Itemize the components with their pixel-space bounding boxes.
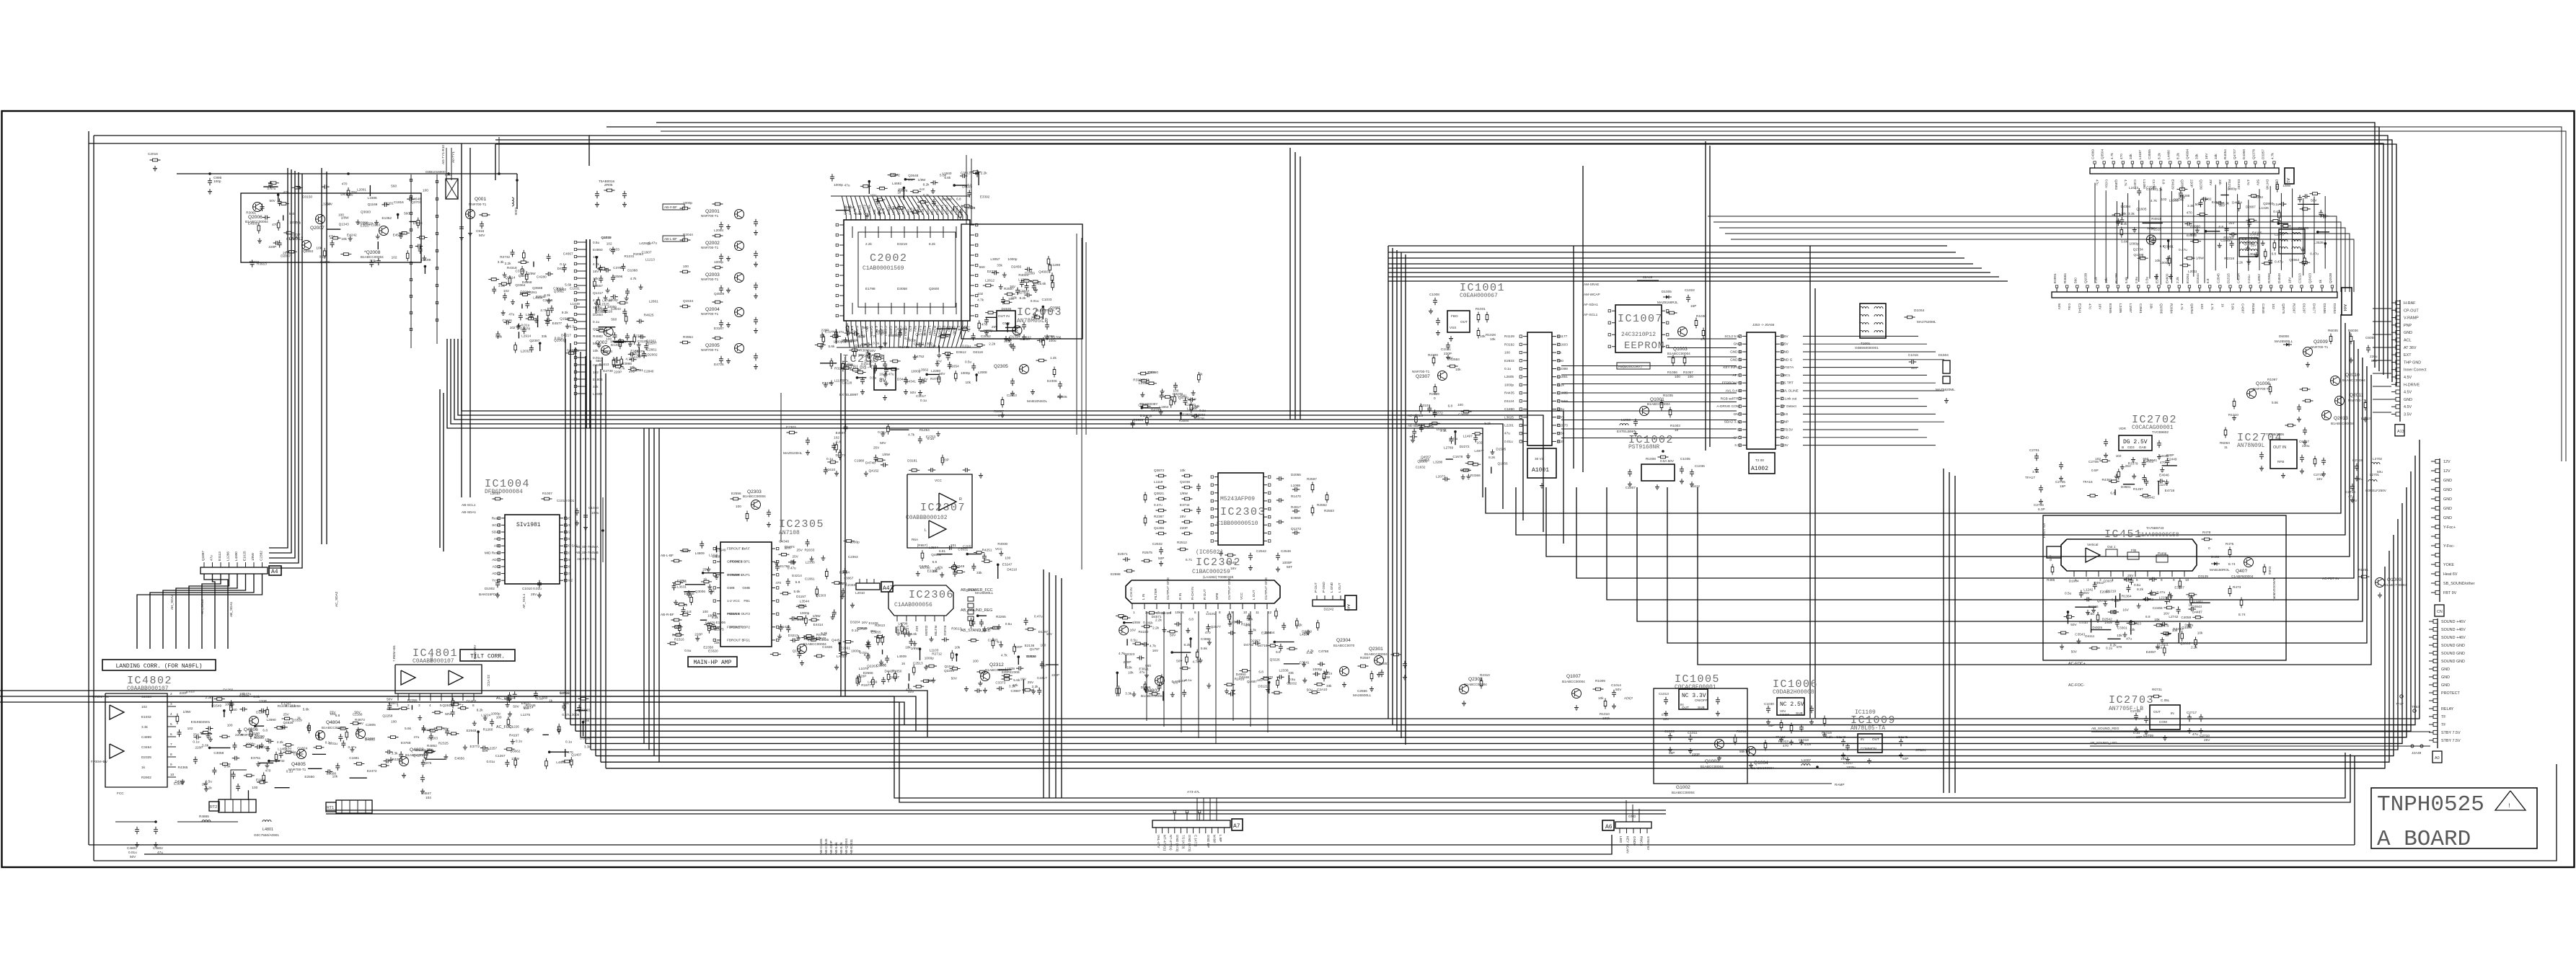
ground [883, 372, 888, 377]
ground [204, 786, 208, 792]
capacitor [2142, 474, 2146, 482]
svg-text:AT 36V: AT 36V [2404, 346, 2417, 350]
pin [845, 321, 847, 325]
svg-text:47u: 47u [210, 555, 213, 561]
svg-text:T5AB0016: T5AB0016 [599, 179, 615, 183]
svg-text:47u: 47u [938, 566, 943, 569]
ground [2165, 479, 2169, 484]
svg-text:1000p: 1000p [984, 329, 993, 332]
svg-text:C0AABB000107: C0AABB000107 [127, 686, 169, 692]
op-amp U4801a [401, 670, 415, 685]
svg-text:Q3873: Q3873 [863, 205, 866, 215]
svg-text:AD5: AD5 [564, 558, 571, 562]
pin [1552, 376, 1556, 378]
svg-text:C.05L: C.05L [2161, 699, 2170, 702]
svg-text:RFB: RFB [2277, 460, 2284, 464]
svg-text:R473: R473 [2233, 585, 2241, 589]
svg-text:C3561: C3561 [2139, 303, 2143, 314]
resistor [2190, 240, 2201, 243]
ground [399, 234, 403, 239]
svg-text:T1001: T1001 [1861, 342, 1871, 345]
svg-text:R1982: R1982 [2202, 197, 2212, 200]
svg-text:25V: 25V [2251, 243, 2257, 247]
svg-text:E.74: E.74 [2228, 562, 2236, 566]
capacitor [610, 295, 617, 299]
svg-text:E2074: E2074 [1261, 631, 1271, 635]
svg-text:1k: 1k [202, 783, 206, 786]
svg-text:L2032: L2032 [521, 350, 530, 353]
wire [2143, 222, 2163, 223]
svg-text:R2567: R2567 [1360, 656, 1370, 660]
capacitor [236, 784, 240, 791]
svg-text:D3132: D3132 [1437, 427, 1447, 431]
capacitor [534, 691, 538, 698]
pin [2435, 581, 2440, 585]
ground [1466, 453, 1470, 458]
svg-text:16P: 16P [2136, 735, 2142, 739]
pin [2280, 288, 2282, 292]
svg-text:470: 470 [1245, 624, 1250, 627]
svg-text:10k: 10k [1128, 670, 1134, 674]
resistor [521, 266, 524, 277]
svg-text:Q3504: Q3504 [2101, 149, 2104, 159]
svg-text:OUT: OUT [1460, 320, 1468, 324]
svg-text:0.1u: 0.1u [1185, 678, 1192, 682]
svg-text:220P: 220P [1124, 660, 1132, 664]
resistor [841, 367, 852, 370]
svg-text:C2708: C2708 [2088, 460, 2099, 464]
pin [262, 562, 263, 567]
svg-text:C2705: C2705 [2055, 480, 2065, 484]
pin [860, 216, 862, 220]
verticals center page [840, 353, 842, 696]
svg-text:R1019: R1019 [1822, 731, 1832, 735]
resistor [2280, 225, 2291, 228]
vertical risers IC2002 to bus [565, 339, 566, 719]
svg-text:R2190: R2190 [795, 618, 806, 621]
pin [577, 241, 586, 243]
inductor [1860, 331, 1869, 332]
resistor [713, 234, 723, 237]
capacitor [451, 709, 455, 717]
svg-text:Q4789: Q4789 [1178, 396, 1188, 399]
wire [269, 761, 280, 762]
capacitor [177, 730, 182, 737]
resistor [1146, 415, 1149, 426]
resistor [230, 703, 233, 714]
svg-text:560: 560 [542, 696, 547, 700]
wire [275, 787, 290, 789]
svg-text:EXTELB99T: EXTELB99T [1617, 430, 1636, 433]
svg-text:POWER BP2: POWER BP2 [730, 625, 750, 629]
resistor [943, 353, 953, 355]
svg-text:R OUT: R OUT [1203, 589, 1207, 600]
svg-text:C1147: C1147 [1843, 761, 1853, 765]
ground [1002, 272, 1007, 278]
label box TILT CORR. [460, 649, 515, 661]
svg-text:D1314: D1314 [1010, 335, 1020, 339]
svg-text:L1119: L1119 [1154, 480, 1163, 484]
resistor [338, 727, 348, 730]
capacitor [2120, 217, 2124, 224]
inductor [2240, 242, 2249, 244]
svg-text:C2532: C2532 [1152, 542, 1163, 546]
svg-text:SDA2 3.3V: SDA2 3.3V [1724, 420, 1742, 424]
svg-text:0.5u: 0.5u [870, 376, 877, 379]
pin [1776, 445, 1780, 446]
svg-text:VDR: VDR [2119, 427, 2127, 430]
svg-text:47u: 47u [414, 735, 420, 739]
svg-text:4.5V: 4.5V [2404, 391, 2412, 395]
svg-text:D2887: D2887 [2246, 205, 2256, 208]
ground [1058, 394, 1062, 399]
svg-text:R2387: R2387 [1154, 515, 1164, 518]
wire [978, 172, 979, 185]
svg-text:TRA00039Y: TRA00039Y [1139, 402, 1158, 406]
svg-text:C1679: C1679 [705, 621, 715, 625]
svg-text:C2002: C2002 [870, 252, 908, 265]
pin [2066, 288, 2068, 292]
svg-text:1/8W: 1/8W [911, 647, 919, 650]
pin [2435, 525, 2440, 528]
svg-text:B1ABCC00004: B1ABCC00004 [743, 495, 766, 498]
pin [2433, 619, 2438, 623]
svg-text:Q3479: Q3479 [926, 205, 930, 215]
svg-text:L1426: L1426 [2259, 206, 2269, 210]
svg-text:C3740: C3740 [516, 270, 526, 273]
svg-text:4.7k: 4.7k [2270, 152, 2274, 159]
svg-text:D10S4: D10S4 [1914, 309, 1925, 312]
wire [2220, 195, 2228, 196]
capacitor [960, 174, 967, 178]
pin [577, 342, 586, 344]
ground [389, 757, 393, 762]
capacitor [583, 513, 588, 520]
pin [2270, 288, 2272, 292]
pin [253, 562, 255, 567]
svg-text:25V: 25V [793, 554, 799, 558]
ground [754, 328, 758, 333]
svg-text:L4977: L4977 [1474, 449, 1483, 453]
svg-text:0.5P: 0.5P [2091, 469, 2099, 472]
svg-text:STBY 5V: STBY 5V [1646, 836, 1650, 851]
capacitor [621, 263, 625, 270]
svg-text:0.5u: 0.5u [2135, 276, 2138, 283]
svg-text:E3187: E3187 [361, 223, 371, 227]
svg-text:470: 470 [2187, 595, 2193, 598]
svg-text:L3621: L3621 [2248, 252, 2257, 256]
resistor [480, 213, 490, 216]
ground [2259, 466, 2264, 471]
svg-text:L1275: L1275 [521, 713, 530, 717]
ground [1449, 336, 1453, 341]
inner rect bottom [89, 844, 2355, 846]
svg-text:0.1u: 0.1u [193, 740, 200, 743]
svg-text:GND: GND [1734, 435, 1742, 439]
svg-text:Q1905: Q1905 [1460, 468, 1470, 471]
svg-text:0.1u: 0.1u [516, 740, 523, 743]
svg-text:5.6k: 5.6k [405, 727, 412, 730]
wire [820, 363, 837, 364]
svg-text:C-Link out: C-Link out [1781, 396, 1797, 400]
resistor [1434, 384, 1437, 395]
svg-text:1000p: 1000p [961, 371, 970, 375]
IC2702 passives [2087, 453, 2177, 499]
svg-text:16V: 16V [1152, 649, 1159, 652]
capacitor [904, 377, 908, 384]
capacitor [2350, 484, 2355, 491]
svg-text:L2094: L2094 [714, 229, 723, 232]
svg-text:D3612: D3612 [956, 350, 966, 354]
svg-text:C4103: C4103 [428, 736, 438, 740]
svg-text:4.7k: 4.7k [977, 298, 984, 302]
resistor [277, 220, 280, 231]
wire [327, 229, 340, 230]
pin [2396, 309, 2400, 312]
reset IC box [1447, 311, 1470, 332]
svg-text:16V: 16V [880, 662, 886, 666]
svg-text:C1980: C1980 [854, 458, 864, 462]
svg-text:470: 470 [2160, 461, 2166, 464]
svg-text:IN: IN [1861, 737, 1864, 741]
capacitor [830, 174, 834, 181]
svg-text:AF-SCL1: AF-SCL1 [1584, 313, 1598, 316]
svg-text:470: 470 [1205, 631, 1211, 634]
svg-text:1: 1 [1133, 611, 1135, 614]
svg-text:6.8: 6.8 [1258, 670, 1263, 674]
resistor [888, 174, 899, 177]
wire [1491, 467, 1492, 474]
svg-text:0.1u: 0.1u [826, 457, 834, 461]
svg-text:D2456: D2456 [1011, 265, 1021, 268]
resistor [1472, 433, 1483, 435]
wire [377, 241, 379, 249]
svg-text:560: 560 [611, 318, 617, 322]
ground [2306, 362, 2310, 367]
svg-text:Q1887: Q1887 [945, 205, 949, 215]
svg-text:D451: D451 [2268, 567, 2272, 575]
svg-text:D3204: D3204 [850, 621, 860, 624]
svg-text:C3058: C3058 [213, 751, 224, 755]
wires Q2009 cluster to mini stack [2373, 308, 2391, 309]
svg-text:B1ABCC00004: B1ABCC00004 [361, 255, 384, 259]
svg-text:5.6k: 5.6k [1246, 617, 1253, 621]
capacitor [511, 249, 515, 257]
pin [203, 562, 205, 567]
svg-text:L4648: L4648 [412, 198, 421, 201]
pin [970, 234, 974, 236]
pin [918, 216, 919, 220]
resistor [830, 335, 841, 338]
svg-text:R1488: R1488 [899, 345, 909, 349]
resistor [625, 314, 627, 324]
svg-text:R2587: R2587 [1004, 287, 1014, 291]
ground [537, 593, 542, 598]
svg-text:E4873: E4873 [935, 205, 939, 215]
svg-text:F/B: F/B [2131, 549, 2136, 552]
svg-text:R4391: R4391 [2102, 478, 2112, 482]
resistor [1672, 355, 1675, 366]
IC2002 interior [858, 232, 956, 307]
pin [894, 216, 896, 220]
svg-text:C2052: C2052 [981, 334, 991, 338]
pin [2435, 590, 2440, 594]
svg-text:TA75B9743: TA75B9743 [2146, 526, 2164, 530]
svg-text:L3539: L3539 [2314, 241, 2324, 244]
svg-text:3.3k: 3.3k [1250, 628, 1257, 631]
svg-text:E2136: E2136 [1025, 644, 1035, 647]
svg-text:L2201: L2201 [1504, 423, 1514, 427]
svg-text:R1470: R1470 [1291, 495, 1301, 498]
ground [878, 344, 883, 349]
svg-text:SDA1: SDA1 [492, 531, 501, 534]
wire [601, 358, 603, 371]
resistor [1162, 396, 1173, 399]
resistor [954, 371, 957, 381]
capacitor [522, 327, 526, 334]
svg-text:Q2307: Q2307 [1416, 374, 1430, 379]
inductor [1874, 315, 1883, 316]
svg-text:Q1407: Q1407 [571, 753, 581, 756]
resistor [545, 758, 548, 769]
svg-text:C1040: C1040 [588, 506, 599, 510]
svg-text:IC2703: IC2703 [2109, 694, 2154, 706]
pin [577, 249, 586, 250]
transistor [604, 327, 613, 337]
svg-text:AD0: AD0 [564, 551, 571, 554]
page border frame [2, 111, 2575, 867]
svg-text:Q2807: Q2807 [889, 675, 899, 679]
svg-text:L3867: L3867 [844, 576, 853, 580]
svg-text:Q2304: Q2304 [1336, 638, 1351, 643]
inductor [1860, 315, 1869, 316]
svg-text:1000p: 1000p [2130, 242, 2139, 246]
svg-text:Q1887: Q1887 [201, 551, 205, 561]
svg-text:8.2k: 8.2k [2176, 152, 2179, 159]
svg-text:L2010: L2010 [855, 591, 865, 595]
svg-text:FOOT: FOOT [1780, 713, 1789, 717]
ground [350, 747, 354, 752]
svg-text:E2956: E2956 [256, 778, 266, 781]
svg-text:C2465: C2465 [2153, 606, 2163, 610]
svg-text:1k: 1k [1558, 351, 1562, 355]
svg-text:100: 100 [702, 610, 708, 613]
svg-text:Q1538: Q1538 [2329, 273, 2332, 283]
svg-text:SIv1981: SIv1981 [516, 522, 541, 528]
svg-text:8.2k: 8.2k [712, 616, 719, 619]
svg-text:AN78N09L: AN78N09L [2237, 443, 2265, 449]
svg-text:R1231: R1231 [625, 254, 635, 258]
svg-text:C0DAB2H00008: C0DAB2H00008 [1773, 689, 1814, 696]
pin [2230, 288, 2231, 292]
svg-text:5.6k: 5.6k [944, 176, 951, 179]
svg-text:E2461: E2461 [840, 646, 850, 649]
svg-text:FG1: FG1 [744, 638, 751, 642]
wire [1142, 407, 1160, 409]
svg-text:E2303: E2303 [786, 425, 796, 429]
svg-text:R2597: R2597 [1307, 477, 1317, 481]
svg-text:L1224: L1224 [481, 713, 490, 717]
pin [2435, 515, 2440, 519]
svg-text:L4146: L4146 [896, 631, 906, 635]
ground [2131, 457, 2135, 462]
pin [1523, 409, 1527, 410]
svg-text:IN: IN [2171, 711, 2174, 715]
capacitor [2302, 194, 2309, 198]
svg-text:Q1599: Q1599 [2182, 626, 2192, 629]
capacitor [806, 438, 810, 445]
svg-text:7: 7 [170, 742, 172, 746]
svg-text:6.8: 6.8 [932, 560, 938, 564]
svg-text:Q3107: Q3107 [1420, 404, 1430, 407]
svg-text:V-RAMP: V-RAMP [2404, 316, 2419, 321]
resistor [2270, 220, 2281, 223]
svg-text:C2714: C2714 [2345, 490, 2355, 494]
pin [1742, 351, 1747, 353]
svg-text:C4379: C4379 [1230, 621, 1240, 624]
pin [501, 538, 505, 540]
svg-text:6.71: 6.71 [1186, 558, 1193, 562]
ground [153, 166, 157, 171]
svg-text:L-CH IN: L-CH IN [1129, 588, 1133, 600]
resistor [619, 338, 622, 349]
svg-text:R1009: R1009 [1595, 679, 1605, 683]
pin [577, 263, 586, 265]
svg-text:GNP: GNP [1781, 420, 1788, 424]
svg-text:C4367: C4367 [2241, 303, 2245, 314]
resistor [257, 223, 260, 234]
svg-text:100: 100 [1005, 557, 1010, 560]
svg-text:2: 2 [2087, 578, 2089, 582]
ground [1004, 336, 1008, 341]
svg-text:6.8: 6.8 [2206, 278, 2210, 283]
resistor [1447, 365, 1458, 368]
svg-text:2: 2 [1145, 611, 1147, 614]
svg-text:5.6k: 5.6k [2125, 276, 2128, 283]
svg-text:Q2310: Q2310 [806, 637, 821, 642]
svg-text:R1097: R1097 [2267, 378, 2277, 381]
svg-text:THP GND: THP GND [2404, 360, 2421, 365]
svg-text:AVL 0-4 in: AVL 0-4 in [1726, 389, 1742, 393]
pin [2217, 164, 2218, 168]
pin [839, 244, 844, 246]
pin [501, 552, 505, 554]
svg-text:8.2k: 8.2k [477, 709, 484, 712]
svg-text:D3601: D3601 [2121, 485, 2131, 489]
resistor [566, 352, 577, 355]
svg-text:L3544: L3544 [800, 600, 809, 603]
capacitor [2158, 479, 2165, 483]
svg-text:D4304: D4304 [2120, 205, 2130, 208]
svg-text:PNP: PNP [2404, 324, 2412, 328]
svg-text:L1449: L1449 [570, 302, 580, 306]
pin [1523, 400, 1527, 402]
svg-text:16V: 16V [426, 748, 433, 751]
resistor [680, 270, 691, 273]
pin [2396, 375, 2400, 378]
svg-text:GND (A73): GND (A73) [1188, 835, 1191, 852]
svg-text:NN#700-T1: NN#700-T1 [701, 312, 719, 316]
svg-text:8.2k: 8.2k [923, 193, 930, 197]
capacitor [544, 318, 552, 322]
svg-text:4.7k: 4.7k [2151, 199, 2158, 203]
svg-text:B1ABCC00004: B1ABCC00004 [2331, 422, 2354, 425]
transistor [297, 750, 306, 759]
svg-text:R3366: R3366 [1470, 474, 1481, 477]
svg-text:0.47u: 0.47u [348, 745, 357, 749]
svg-text:AB-R-BF: AB-R-BF [661, 613, 674, 616]
pin [952, 321, 953, 325]
